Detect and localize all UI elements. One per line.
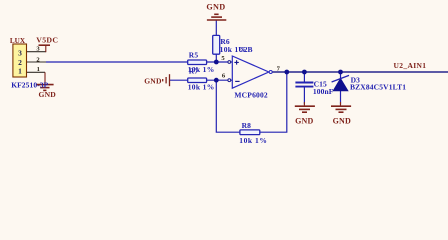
svg-text:1: 1 xyxy=(18,67,22,76)
svg-text:100nF: 100nF xyxy=(313,87,334,96)
svg-text:GND: GND xyxy=(39,90,57,99)
svg-text:3: 3 xyxy=(18,48,22,57)
svg-text:GND: GND xyxy=(333,117,351,126)
svg-text:MCP6002: MCP6002 xyxy=(234,90,268,99)
svg-text:10k 1%: 10k 1% xyxy=(239,136,267,145)
svg-text:LUX: LUX xyxy=(10,37,26,45)
svg-text:R5: R5 xyxy=(189,50,199,59)
svg-text:GND: GND xyxy=(206,3,225,12)
svg-text:V5DC: V5DC xyxy=(36,36,58,45)
svg-text:GND: GND xyxy=(295,117,313,126)
svg-text:R7: R7 xyxy=(189,67,199,76)
svg-text:10k 1%: 10k 1% xyxy=(188,83,215,92)
svg-text:1: 1 xyxy=(37,66,40,73)
svg-text:2: 2 xyxy=(18,58,22,67)
svg-text:KF2510-3P: KF2510-3P xyxy=(11,81,48,90)
svg-text:BZX84C5V1LT1: BZX84C5V1LT1 xyxy=(350,82,406,91)
svg-text:GND: GND xyxy=(144,76,162,85)
svg-text:U2B: U2B xyxy=(238,45,252,54)
svg-text:U2_AIN1: U2_AIN1 xyxy=(394,61,427,70)
svg-text:R8: R8 xyxy=(242,121,252,130)
